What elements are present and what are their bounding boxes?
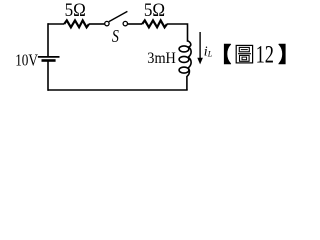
svg-text:5Ω: 5Ω [65, 0, 86, 21]
svg-text:5Ω: 5Ω [144, 0, 165, 21]
wire R2 to top-right corner [167, 24, 188, 42]
current arrow iL [197, 32, 203, 64]
inductor L1 (3mH coil) [179, 41, 191, 77]
svg-text:12: 12 [256, 40, 274, 69]
wire below inductor [186, 76, 188, 90]
svg-text:10V: 10V [15, 50, 38, 69]
resistor R2 [142, 20, 167, 27]
caption right lenticular bracket 】 [278, 44, 285, 65]
svg-text:3mH: 3mH [147, 50, 176, 67]
resistor R1 [64, 20, 89, 27]
caption left lenticular bracket 【 [224, 44, 231, 65]
wire switch to R2 [128, 23, 143, 25]
svg-text:iL: iL [204, 45, 213, 60]
caption glyph 圖 [236, 45, 252, 63]
battery V1 short thick plate [42, 59, 56, 62]
wire R1 to switch [89, 23, 105, 25]
switch S [105, 11, 128, 25]
battery V1 long plate [38, 56, 60, 58]
left vertical wire lower [47, 61, 49, 91]
wire top-left segment [48, 23, 64, 25]
svg-text:S: S [112, 26, 119, 46]
left vertical wire upper [47, 23, 49, 56]
bottom rail wire [48, 89, 188, 91]
